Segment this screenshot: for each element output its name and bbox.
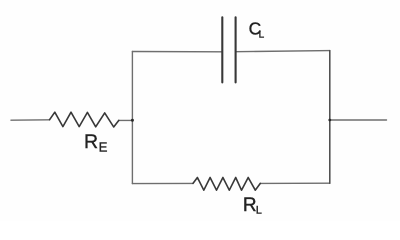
- svg-text:R: R: [84, 131, 98, 153]
- svg-text:L: L: [256, 205, 262, 217]
- svg-text:R: R: [243, 195, 257, 216]
- svg-text:E: E: [99, 140, 108, 155]
- svg-text:L: L: [259, 29, 265, 40]
